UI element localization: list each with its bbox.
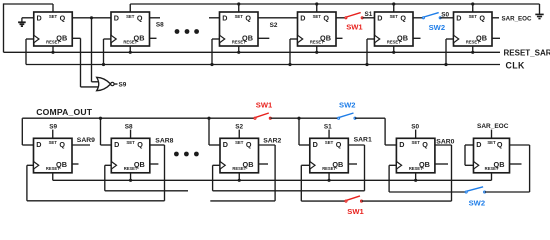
svg-text:D: D [114, 14, 119, 23]
svg-text:SET: SET [49, 140, 58, 145]
svg-text:SET: SET [469, 14, 478, 19]
svg-text:RESET: RESET [322, 166, 336, 171]
svg-text:RESET: RESET [123, 40, 137, 45]
svg-text:RESET: RESET [124, 166, 138, 171]
svg-text:S2: S2 [270, 22, 278, 29]
svg-text:S9: S9 [119, 82, 127, 89]
svg-text:Q: Q [60, 14, 66, 23]
svg-text:D: D [399, 140, 404, 149]
svg-text:D: D [456, 14, 461, 23]
svg-text:D: D [223, 140, 228, 149]
svg-text:SET: SET [390, 14, 399, 19]
svg-text:S0: S0 [441, 11, 449, 18]
svg-text:D: D [37, 14, 42, 23]
svg-text:RESET: RESET [466, 40, 480, 45]
svg-text:S2: S2 [235, 123, 243, 130]
svg-text:Q: Q [246, 140, 252, 149]
svg-text:SAR_EOC: SAR_EOC [477, 123, 509, 130]
svg-text:SW1: SW1 [347, 207, 364, 216]
svg-text:S9: S9 [49, 123, 57, 130]
svg-text:Q: Q [137, 140, 143, 149]
svg-text:SET: SET [126, 140, 135, 145]
svg-text:D: D [313, 140, 318, 149]
svg-text:Q: Q [400, 14, 406, 23]
svg-text:S1: S1 [365, 11, 373, 18]
svg-text:S0: S0 [411, 123, 419, 130]
svg-text:SET: SET [325, 140, 334, 145]
svg-text:RESET: RESET [46, 166, 60, 171]
svg-text:Q: Q [479, 14, 485, 23]
svg-text:RESET: RESET [232, 40, 246, 45]
svg-text:SET: SET [235, 140, 244, 145]
svg-text:SET: SET [411, 140, 420, 145]
svg-text:Q: Q [59, 140, 65, 149]
svg-text:SET: SET [487, 140, 496, 145]
svg-text:D: D [36, 140, 41, 149]
svg-text:SAR8: SAR8 [155, 138, 173, 145]
svg-text:SW1: SW1 [346, 23, 363, 32]
svg-text:RESET: RESET [232, 166, 246, 171]
svg-text:SET: SET [235, 14, 244, 19]
svg-text:SET: SET [49, 14, 58, 19]
svg-text:Q: Q [323, 14, 329, 23]
svg-text:SAR9: SAR9 [77, 137, 95, 144]
svg-text:RESET: RESET [387, 40, 401, 45]
svg-text:COMPA_OUT: COMPA_OUT [36, 107, 93, 117]
svg-text:SET: SET [313, 14, 322, 19]
svg-text:RESET: RESET [46, 40, 60, 45]
svg-text:D: D [114, 140, 119, 149]
svg-text:SW1: SW1 [256, 101, 273, 110]
svg-text:RESET: RESET [485, 166, 499, 171]
svg-text:SAR2: SAR2 [263, 138, 281, 145]
svg-text:S1: S1 [324, 123, 332, 130]
svg-text:RESET_SAR: RESET_SAR [504, 49, 550, 58]
svg-text:RESET: RESET [310, 40, 324, 45]
svg-text:D: D [222, 14, 227, 23]
svg-text:SET: SET [126, 14, 135, 19]
svg-text:SW2: SW2 [429, 23, 445, 32]
svg-text:SAR_EOC: SAR_EOC [502, 16, 532, 23]
svg-text:CLK: CLK [506, 60, 526, 70]
svg-text:S8: S8 [156, 21, 164, 28]
svg-text:Q: Q [336, 140, 342, 149]
svg-text:Q: Q [497, 140, 503, 149]
svg-text:Q: Q [137, 14, 143, 23]
svg-text:SW2: SW2 [469, 198, 485, 207]
svg-text:D: D [300, 14, 305, 23]
svg-text:D: D [476, 140, 481, 149]
svg-text:SW2: SW2 [339, 101, 355, 110]
svg-text:D: D [377, 14, 382, 23]
svg-text:Q: Q [422, 140, 428, 149]
svg-text:Q: Q [245, 14, 251, 23]
svg-text:S8: S8 [125, 123, 133, 130]
svg-text:SAR1: SAR1 [354, 137, 372, 144]
svg-text:RESET: RESET [409, 166, 423, 171]
